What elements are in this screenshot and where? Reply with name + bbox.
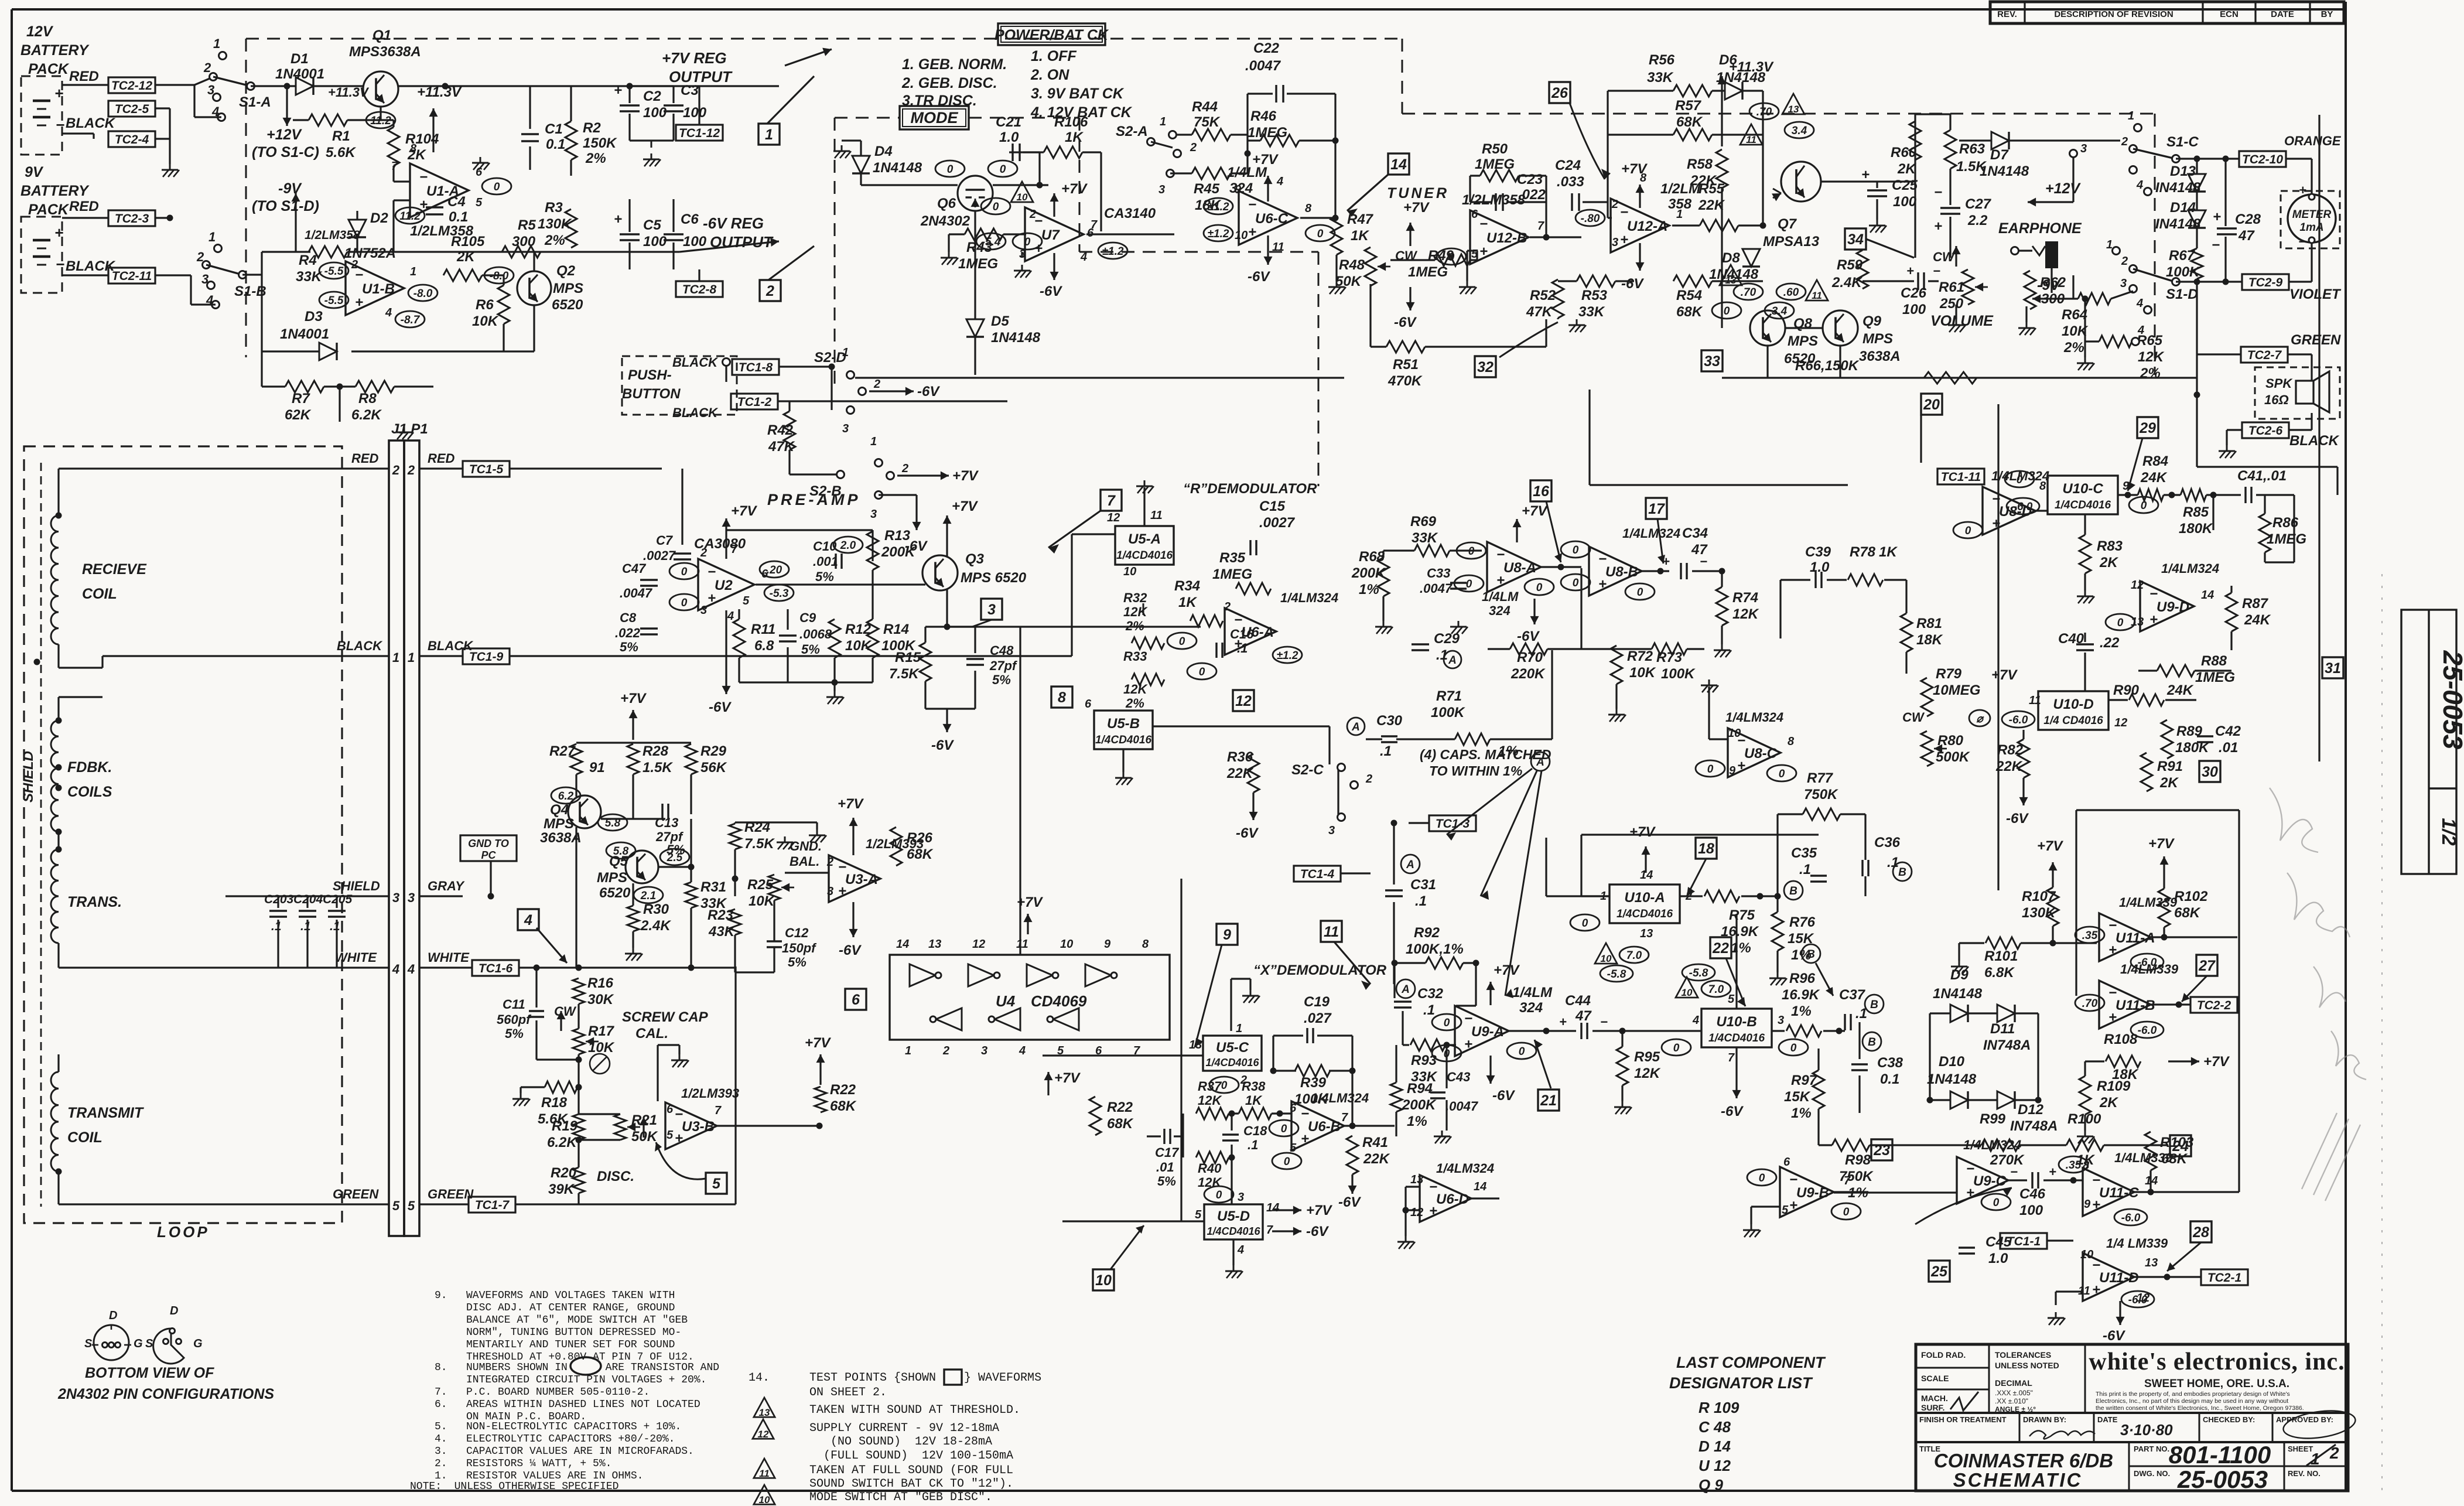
svg-text:R73: R73 <box>1656 650 1683 665</box>
svg-text:C9: C9 <box>799 610 816 625</box>
svg-text:TC1-7: TC1-7 <box>475 1198 510 1212</box>
svg-text:68K: 68K <box>1676 304 1703 320</box>
svg-text:68K: 68K <box>1107 1116 1134 1132</box>
svg-text:250: 250 <box>1939 296 1964 312</box>
svg-text:GREEN: GREEN <box>428 1187 474 1201</box>
svg-text:TAKEN AT FULL SOUND (FOR FULL: TAKEN AT FULL SOUND (FOR FULL <box>809 1464 1013 1477</box>
svg-text:9: 9 <box>1223 927 1231 943</box>
svg-text:5: 5 <box>1057 1044 1064 1057</box>
svg-text:R35: R35 <box>1219 550 1246 566</box>
svg-text:A: A <box>1406 859 1414 871</box>
svg-text:D12: D12 <box>2018 1102 2044 1118</box>
svg-text:10K: 10K <box>1629 665 1656 681</box>
svg-text:-6V: -6V <box>1394 315 1417 330</box>
svg-text:1: 1 <box>905 1044 911 1057</box>
svg-text:10: 10 <box>1060 938 1073 951</box>
svg-text:1.: 1. <box>435 1470 447 1482</box>
svg-text:Electronics, Inc., no part of: Electronics, Inc., no part of this desig… <box>2096 1398 2288 1405</box>
svg-text:12K: 12K <box>1123 682 1148 696</box>
svg-text:FOLD RAD.: FOLD RAD. <box>1921 1350 1966 1360</box>
svg-text:U7: U7 <box>1041 227 1060 243</box>
svg-text:12: 12 <box>758 1429 769 1440</box>
svg-text:R1: R1 <box>332 128 350 144</box>
svg-text:D3: D3 <box>305 309 323 325</box>
svg-text:1N4148: 1N4148 <box>1933 986 1983 1002</box>
svg-text:R26: R26 <box>907 830 933 846</box>
svg-text:3.4: 3.4 <box>1792 125 1807 137</box>
svg-text:C33: C33 <box>1427 566 1450 580</box>
svg-text:1MEG: 1MEG <box>958 256 998 272</box>
svg-text:4: 4 <box>524 912 532 928</box>
svg-text:R57: R57 <box>1675 98 1702 114</box>
svg-text:7.: 7. <box>435 1387 447 1398</box>
svg-text:C25: C25 <box>1892 177 1918 193</box>
svg-text:30K: 30K <box>587 992 614 1008</box>
svg-text:1N4148: 1N4148 <box>991 330 1041 346</box>
svg-text:R61: R61 <box>1939 279 1964 295</box>
svg-text:1/4LM324: 1/4LM324 <box>1311 1091 1369 1105</box>
svg-text:S: S <box>84 1337 93 1350</box>
svg-text:3: 3 <box>870 508 877 521</box>
svg-text:U11-B: U11-B <box>2116 998 2155 1013</box>
svg-text:25: 25 <box>1930 1263 1948 1280</box>
svg-text:+12V: +12V <box>2045 180 2081 197</box>
svg-text:30: 30 <box>2202 764 2218 780</box>
svg-text:26: 26 <box>1551 85 1568 101</box>
svg-text:5: 5 <box>1195 1208 1202 1221</box>
svg-text:R77: R77 <box>1807 770 1834 786</box>
svg-text:NOTE: UNLESS OTHERWISE SPECIF: NOTE: UNLESS OTHERWISE SPECIFIED <box>410 1481 618 1493</box>
svg-text:.22: .22 <box>2100 635 2120 651</box>
svg-text:+7V: +7V <box>2148 836 2175 852</box>
svg-text:0: 0 <box>1444 1048 1450 1060</box>
svg-text:C27: C27 <box>1965 196 1992 212</box>
svg-text:-.80: -.80 <box>1581 213 1600 225</box>
svg-text:A: A <box>1448 654 1457 667</box>
svg-text:13: 13 <box>1788 104 1799 115</box>
svg-text:1/2LM393: 1/2LM393 <box>681 1086 739 1101</box>
svg-text:-6V: -6V <box>931 737 954 753</box>
svg-text:1.0: 1.0 <box>1810 559 1830 575</box>
svg-text:18K: 18K <box>2112 1067 2139 1082</box>
svg-text:324: 324 <box>1519 1000 1543 1016</box>
svg-text:C32: C32 <box>1417 986 1444 1002</box>
svg-text:9.: 9. <box>435 1290 447 1302</box>
svg-text:0: 0 <box>1448 251 1455 264</box>
svg-text:INTEGRATED CIRCUIT PIN VOLTAGE: INTEGRATED CIRCUIT PIN VOLTAGES + 20%. <box>466 1374 706 1386</box>
svg-text:NUMBERS SHOWN IN ARE TRAN: NUMBERS SHOWN IN ARE TRANSISTOR AND <box>466 1362 719 1374</box>
svg-text:1/4LM: 1/4LM <box>1482 589 1519 604</box>
svg-text:+: + <box>2213 209 2221 225</box>
svg-text:Q 9: Q 9 <box>1699 1476 1723 1494</box>
svg-text:4: 4 <box>2136 297 2143 310</box>
svg-text:2.: 2. <box>435 1458 447 1470</box>
svg-text:U5-A: U5-A <box>1128 531 1161 547</box>
svg-text:-6V: -6V <box>1621 276 1644 292</box>
svg-text:130K: 130K <box>2022 905 2056 921</box>
svg-text:11: 11 <box>1324 924 1339 940</box>
svg-text:REV.: REV. <box>1997 9 2017 19</box>
svg-text:3: 3 <box>1238 1191 1244 1204</box>
svg-text:R59: R59 <box>1837 257 1863 273</box>
svg-text:1K: 1K <box>1351 228 1369 244</box>
svg-text:R4: R4 <box>299 252 317 268</box>
svg-text:0: 0 <box>1582 917 1588 930</box>
svg-text:+11.3V: +11.3V <box>417 84 462 100</box>
svg-text:R99: R99 <box>1980 1111 2006 1127</box>
svg-text:Q3: Q3 <box>965 551 985 567</box>
svg-text:33K: 33K <box>1578 304 1605 320</box>
svg-text:200K: 200K <box>881 544 916 560</box>
svg-text:TC1-3: TC1-3 <box>1436 817 1470 831</box>
svg-text:R63: R63 <box>1959 141 1985 157</box>
svg-text:8: 8 <box>2083 1159 2090 1172</box>
svg-text:150K: 150K <box>583 135 617 151</box>
svg-text:22K: 22K <box>1363 1151 1390 1167</box>
svg-text:R96: R96 <box>1789 971 1816 986</box>
svg-text:100: 100 <box>683 105 707 121</box>
svg-text:5: 5 <box>1471 248 1478 261</box>
svg-text:-6V: -6V <box>1517 629 1540 644</box>
svg-text:TC1-11: TC1-11 <box>1941 470 1981 484</box>
svg-text:5%: 5% <box>992 672 1011 687</box>
svg-text:U9-C: U9-C <box>1973 1173 2007 1189</box>
svg-text:2: 2 <box>407 463 415 477</box>
svg-text:-5.8: -5.8 <box>1689 967 1708 979</box>
svg-text:SOUND SWITCH BAT CK TO "12").: SOUND SWITCH BAT CK TO "12"). <box>809 1477 1013 1491</box>
svg-text:C22: C22 <box>1253 40 1280 56</box>
svg-text:POWER/BAT CK: POWER/BAT CK <box>995 27 1109 43</box>
svg-text:25-0053: 25-0053 <box>2438 650 2464 750</box>
svg-text:C1: C1 <box>545 121 563 137</box>
svg-text:COIL: COIL <box>67 1129 102 1146</box>
svg-text:358: 358 <box>1668 196 1692 212</box>
svg-text:+7V: +7V <box>1252 152 1279 168</box>
svg-text:MODE: MODE <box>911 109 959 127</box>
svg-text:-6V: -6V <box>1248 269 1270 285</box>
svg-text:R 109: R 109 <box>1699 1399 1740 1416</box>
svg-text:TEST POINTS {SHOWN } WAVEFO: TEST POINTS {SHOWN } WAVEFORMS <box>809 1371 1041 1385</box>
svg-text:500K: 500K <box>1936 749 1970 765</box>
svg-text:1. OFF: 1. OFF <box>1031 48 1077 64</box>
svg-text:2: 2 <box>1611 198 1618 211</box>
svg-text:1/4CD4016: 1/4CD4016 <box>2055 499 2111 511</box>
svg-text:5: 5 <box>712 1176 721 1192</box>
svg-text:1/2LM358: 1/2LM358 <box>305 228 360 242</box>
svg-text:R22: R22 <box>830 1082 856 1098</box>
svg-text:BLACK: BLACK <box>672 355 719 370</box>
svg-text:4: 4 <box>2137 324 2144 337</box>
svg-text:R56: R56 <box>1649 52 1675 68</box>
svg-text:BOTTOM VIEW OF: BOTTOM VIEW OF <box>85 1365 214 1381</box>
svg-text:C28: C28 <box>2235 211 2261 227</box>
svg-text:0: 0 <box>1000 163 1006 176</box>
svg-text:DATE: DATE <box>2097 1415 2118 1424</box>
svg-text:IN4148: IN4148 <box>2155 216 2201 232</box>
svg-text:68K: 68K <box>1676 114 1703 130</box>
svg-text:11: 11 <box>1746 134 1756 145</box>
svg-text:R5: R5 <box>518 217 536 233</box>
svg-text:R20: R20 <box>551 1165 577 1181</box>
svg-text:-6.0: -6.0 <box>2014 501 2033 513</box>
svg-text:PACK: PACK <box>28 61 70 77</box>
svg-text:SURF.: SURF. <box>1921 1403 1944 1412</box>
svg-text:C31: C31 <box>1410 877 1436 893</box>
svg-text:12V: 12V <box>26 23 54 40</box>
svg-text:TRANS.: TRANS. <box>67 894 122 910</box>
svg-text:1/4CD4016: 1/4CD4016 <box>1116 549 1173 562</box>
svg-text:43K: 43K <box>708 924 736 940</box>
svg-text:2: 2 <box>1365 773 1372 786</box>
svg-text:22K: 22K <box>1226 766 1254 781</box>
svg-text:C37: C37 <box>1839 987 1866 1003</box>
svg-text:1MEG: 1MEG <box>2267 531 2306 547</box>
svg-text:12K: 12K <box>2138 349 2165 365</box>
svg-text:1N4148: 1N4148 <box>1927 1071 1977 1087</box>
svg-text:8.: 8. <box>435 1362 447 1374</box>
svg-text:1/2LM358: 1/2LM358 <box>1462 192 1526 208</box>
svg-text:68K: 68K <box>830 1098 857 1114</box>
svg-text:15K: 15K <box>1784 1089 1811 1105</box>
svg-text:CW: CW <box>1902 710 1925 725</box>
svg-text:SUPPLY CURRENT - 9V 12-18mA: SUPPLY CURRENT - 9V 12-18mA <box>809 1422 999 1435</box>
svg-text:12: 12 <box>1235 693 1252 709</box>
svg-text:2.4K: 2.4K <box>640 918 671 934</box>
svg-text:68K: 68K <box>2161 1151 2188 1167</box>
svg-text:ELECTROLYTIC CAPACITORS +80/-2: ELECTROLYTIC CAPACITORS +80/-20%. <box>466 1433 675 1445</box>
svg-text:3.: 3. <box>435 1446 447 1457</box>
svg-text:20: 20 <box>1923 397 1940 413</box>
svg-text:100K: 100K <box>1661 666 1696 682</box>
svg-text:-6V: -6V <box>1040 284 1062 299</box>
svg-text:U6-B: U6-B <box>1308 1119 1341 1135</box>
svg-text:0: 0 <box>1573 544 1579 556</box>
svg-text:NORM", TUNING BUTTON DEPRESSED: NORM", TUNING BUTTON DEPRESSED MO- <box>466 1327 681 1338</box>
svg-text:BLACK: BLACK <box>66 115 116 131</box>
svg-text:7.5K: 7.5K <box>889 666 920 682</box>
svg-text:TC2-5: TC2-5 <box>115 103 149 116</box>
svg-text:2N4302: 2N4302 <box>920 213 970 229</box>
svg-text:12K: 12K <box>1732 606 1759 622</box>
svg-text:12: 12 <box>1107 511 1120 524</box>
svg-text:DISC ADJ. AT CENTER RANGE, GRO: DISC ADJ. AT CENTER RANGE, GROUND <box>466 1302 675 1314</box>
svg-text:R15: R15 <box>895 650 921 665</box>
svg-text:.35: .35 <box>2082 930 2098 942</box>
svg-text:2: 2 <box>351 258 358 271</box>
svg-text:R52: R52 <box>1530 288 1556 303</box>
svg-text:.1: .1 <box>300 920 311 933</box>
svg-text:“R”DEMODULATOR: “R”DEMODULATOR <box>1183 481 1317 497</box>
svg-text:A: A <box>1401 983 1410 996</box>
svg-text:MPSA13: MPSA13 <box>1763 234 1820 250</box>
svg-text:A: A <box>1536 756 1544 769</box>
svg-text:.027: .027 <box>1304 1010 1332 1026</box>
svg-text:U10-B: U10-B <box>1716 1014 1756 1030</box>
svg-text:5%: 5% <box>801 642 820 657</box>
svg-text:+7V: +7V <box>1629 824 1656 840</box>
svg-text:NON-ELECTROLYTIC CAPACITORS +: NON-ELECTROLYTIC CAPACITORS + 10%. <box>466 1421 681 1433</box>
svg-text:10: 10 <box>2080 1248 2093 1261</box>
svg-text:2%: 2% <box>1125 696 1144 711</box>
svg-text:12K: 12K <box>1634 1066 1661 1081</box>
svg-text:METER: METER <box>2292 209 2332 221</box>
svg-text:CA3140: CA3140 <box>1104 206 1156 221</box>
svg-text:C47: C47 <box>622 561 647 576</box>
svg-text:75K: 75K <box>1194 114 1221 130</box>
svg-text:.XX ±.010": .XX ±.010" <box>1995 1397 2028 1405</box>
svg-text:R107: R107 <box>2022 889 2056 904</box>
svg-text:324: 324 <box>1229 180 1253 196</box>
svg-text:(TO S1-C): (TO S1-C) <box>252 144 319 160</box>
svg-text:R60: R60 <box>1891 145 1917 160</box>
svg-text:D: D <box>170 1304 178 1317</box>
svg-text:6520: 6520 <box>552 297 583 313</box>
svg-text:-8.0: -8.0 <box>490 270 509 282</box>
svg-text:7: 7 <box>1133 1044 1140 1057</box>
svg-text:.1: .1 <box>271 920 282 933</box>
svg-text:D1: D1 <box>291 51 309 67</box>
svg-text:R46: R46 <box>1250 108 1277 124</box>
svg-text:C2: C2 <box>643 88 661 104</box>
svg-text:14.: 14. <box>749 1371 770 1385</box>
svg-text:R64: R64 <box>2062 307 2087 323</box>
svg-text:2K: 2K <box>1897 161 1916 177</box>
svg-text:−: − <box>1620 204 1628 220</box>
svg-text:R90: R90 <box>2113 682 2140 698</box>
svg-text:±1.2: ±1.2 <box>1277 650 1298 662</box>
svg-text:0.1: 0.1 <box>449 209 468 225</box>
svg-text:WHITE: WHITE <box>428 950 470 965</box>
svg-text:FDBK.: FDBK. <box>67 759 112 776</box>
svg-text:C4: C4 <box>447 194 466 210</box>
svg-text:100: 100 <box>643 105 667 121</box>
svg-text:47: 47 <box>1575 1008 1592 1024</box>
svg-text:6.: 6. <box>435 1399 447 1411</box>
svg-text:0.1: 0.1 <box>546 136 565 152</box>
svg-text:0: 0 <box>1317 228 1324 240</box>
svg-text:3·10·80: 3·10·80 <box>2120 1421 2173 1439</box>
svg-text:6.8K: 6.8K <box>1984 965 2015 981</box>
svg-text:R70: R70 <box>1517 650 1543 665</box>
svg-text:+12V: +12V <box>266 127 302 143</box>
svg-text:33K: 33K <box>1412 530 1438 546</box>
svg-text:MPS: MPS <box>544 816 574 832</box>
svg-text:2: 2 <box>1190 141 1197 154</box>
svg-text:10K: 10K <box>749 893 775 909</box>
svg-text:U10-A: U10-A <box>1624 890 1665 906</box>
svg-text:MPS: MPS <box>597 870 627 886</box>
svg-text:2K: 2K <box>2099 555 2118 571</box>
svg-text:1: 1 <box>410 265 416 278</box>
svg-text:21: 21 <box>1540 1092 1557 1109</box>
svg-text:1/4LM324: 1/4LM324 <box>2161 561 2219 576</box>
svg-text:+: + <box>1559 1015 1567 1029</box>
svg-text:1.0: 1.0 <box>999 129 1019 145</box>
svg-text:GREEN: GREEN <box>333 1187 379 1201</box>
svg-text:5.: 5. <box>435 1421 447 1433</box>
svg-text:BAL.: BAL. <box>790 854 819 869</box>
svg-text:−: − <box>56 255 64 273</box>
svg-text:11: 11 <box>2029 694 2041 707</box>
svg-text:U3-B: U3-B <box>682 1119 715 1135</box>
svg-text:SCALE: SCALE <box>1921 1374 1949 1383</box>
svg-text:-8.7: -8.7 <box>401 314 421 326</box>
svg-text:MPS: MPS <box>1788 333 1818 349</box>
svg-text:R17: R17 <box>588 1023 615 1039</box>
svg-text:1MEG: 1MEG <box>1408 264 1448 280</box>
svg-text:R78: R78 <box>1850 544 1876 560</box>
svg-text:SWEET HOME, ORE. U.S.A.: SWEET HOME, ORE. U.S.A. <box>2144 1378 2289 1390</box>
svg-text:DATE: DATE <box>2271 9 2294 19</box>
svg-text:11: 11 <box>759 1468 770 1479</box>
svg-text:62K: 62K <box>285 407 312 423</box>
svg-text:3: 3 <box>1778 1014 1784 1027</box>
svg-text:1K: 1K <box>1879 544 1898 560</box>
svg-text:PACK: PACK <box>28 202 70 218</box>
svg-text:R37: R37 <box>1198 1079 1222 1094</box>
svg-text:3638A: 3638A <box>540 830 582 846</box>
svg-text:10K: 10K <box>472 313 499 329</box>
svg-text:B: B <box>1870 999 1878 1011</box>
svg-text:3: 3 <box>842 422 849 435</box>
svg-text:GREEN: GREEN <box>2291 332 2341 348</box>
svg-text:U9-B: U9-B <box>1796 1185 1829 1201</box>
svg-text:.001: .001 <box>813 554 838 569</box>
svg-text:TAKEN WITH SOUND AT THRESHOLD.: TAKEN WITH SOUND AT THRESHOLD. <box>809 1403 1020 1417</box>
svg-text:TC2-12: TC2-12 <box>111 79 152 93</box>
svg-text:+7V: +7V <box>1061 181 1088 197</box>
svg-text:+: + <box>1248 224 1256 240</box>
svg-text:TC2-10: TC2-10 <box>2242 153 2283 166</box>
svg-text:U6-A: U6-A <box>1241 624 1274 640</box>
svg-text:R62: R62 <box>2040 275 2066 291</box>
svg-text:R30: R30 <box>643 901 669 917</box>
svg-text:R11: R11 <box>751 621 775 637</box>
svg-text:0: 0 <box>1199 666 1205 678</box>
svg-text:COILS: COILS <box>67 784 112 800</box>
svg-text:1N4148: 1N4148 <box>1980 163 2029 179</box>
svg-text:2%: 2% <box>585 151 606 166</box>
svg-text:R29: R29 <box>700 743 727 759</box>
svg-text:18K: 18K <box>1916 632 1943 648</box>
svg-text:1/4 LM339: 1/4 LM339 <box>2106 1236 2168 1251</box>
svg-text:13: 13 <box>2145 1256 2158 1269</box>
svg-text:GRAY: GRAY <box>428 879 465 893</box>
svg-text:1. GEB. NORM.: 1. GEB. NORM. <box>902 56 1007 73</box>
svg-text:9V: 9V <box>25 164 44 180</box>
svg-text:SCREW CAP: SCREW CAP <box>622 1009 709 1025</box>
svg-text:R74: R74 <box>1732 590 1758 606</box>
svg-text:BY: BY <box>2321 9 2333 19</box>
svg-text:−: − <box>2298 234 2306 249</box>
svg-text:−: − <box>2010 1164 2018 1179</box>
svg-text:100: 100 <box>1902 302 1926 317</box>
svg-text:5%: 5% <box>505 1026 524 1041</box>
svg-text:R71: R71 <box>1436 688 1462 704</box>
svg-text:+7V: +7V <box>1017 894 1043 910</box>
svg-text:2%: 2% <box>2140 366 2161 381</box>
svg-text:C21: C21 <box>996 114 1021 130</box>
svg-text:0: 0 <box>993 201 999 213</box>
svg-text:D10: D10 <box>1939 1054 1965 1070</box>
svg-text:.1: .1 <box>1799 862 1811 877</box>
svg-text:100: 100 <box>2019 1203 2043 1218</box>
svg-text:SCHEMATIC: SCHEMATIC <box>1953 1469 2083 1491</box>
svg-text:5: 5 <box>1728 993 1735 1006</box>
svg-text:2: 2 <box>2121 255 2128 268</box>
svg-text:MPS 6520: MPS 6520 <box>961 570 1027 586</box>
svg-text:-6V: -6V <box>1236 825 1259 841</box>
